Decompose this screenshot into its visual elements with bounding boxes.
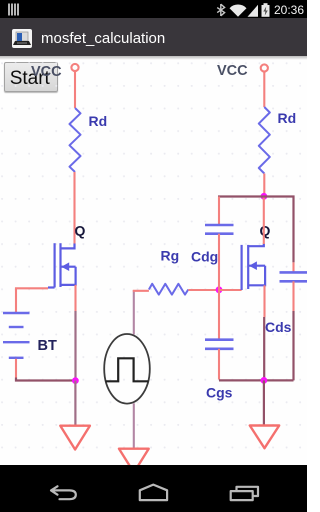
wire battery to bottom rail (left) bbox=[15, 359, 17, 378]
wire gate node to Q gate (right) bbox=[219, 289, 242, 291]
svg-text:VCC: VCC bbox=[31, 64, 62, 80]
wire corner to Rg bbox=[133, 290, 149, 292]
wire Q gate to battery BT bbox=[16, 288, 48, 312]
resistor Rd (right) bbox=[259, 107, 270, 174]
wire gate node to Cgs bbox=[218, 290, 220, 340]
node (drain) bbox=[261, 193, 268, 200]
wire Rg to gate node bbox=[188, 289, 219, 291]
svg-text:VCC: VCC bbox=[217, 63, 248, 79]
svg-text:Rg: Rg bbox=[161, 248, 180, 264]
svg-text:Q: Q bbox=[75, 223, 86, 239]
wire node to ground (left) bbox=[74, 381, 76, 426]
status bar icons bbox=[0, 0, 307, 18]
bottom rail (left) bbox=[16, 378, 75, 381]
wire drain node to Cdg bbox=[218, 197, 264, 226]
node (left source/battery junction) bbox=[72, 377, 79, 384]
pulse source V1 bbox=[104, 334, 150, 404]
transistor Q (right NMOS) bbox=[242, 244, 266, 291]
wire V1 bottom to ground (mid) bbox=[133, 403, 135, 448]
capacitor Cds bbox=[280, 272, 308, 281]
wire Q source down (left) bbox=[74, 285, 76, 381]
action/title bar bbox=[0, 18, 307, 56]
wire Cdg to gate node bbox=[218, 234, 220, 290]
svg-text:Rd: Rd bbox=[89, 113, 108, 129]
wire V1 top to Rg corner bbox=[133, 290, 135, 335]
wire drain node to Q drain (right) bbox=[263, 197, 265, 245]
wire VCC terminal to Rd (left) bbox=[74, 71, 76, 108]
svg-text:Cdg: Cdg bbox=[191, 249, 218, 265]
bottom rail (right) bbox=[219, 379, 294, 381]
wire drain node to Cds bbox=[264, 197, 294, 273]
wire Q source down (right) bbox=[263, 285, 265, 380]
VCC terminal (left) bbox=[71, 64, 78, 71]
wire Cds to bottom rail bbox=[292, 281, 294, 380]
battery BT bbox=[3, 313, 30, 358]
svg-text:Q: Q bbox=[260, 223, 271, 239]
svg-text:Rd: Rd bbox=[278, 110, 297, 126]
capacitor Cdg bbox=[205, 225, 234, 234]
Start button bbox=[4, 62, 58, 92]
resistor Rd (left) bbox=[70, 108, 81, 172]
ground (right) bbox=[250, 426, 279, 449]
svg-text:Cds: Cds bbox=[265, 319, 292, 335]
node (gate) bbox=[216, 286, 223, 293]
svg-text:Cgs: Cgs bbox=[206, 385, 233, 401]
status bar bbox=[0, 0, 307, 18]
navigation bar bbox=[0, 465, 307, 512]
transistor Q (left NMOS) bbox=[48, 243, 76, 287]
ground (mid) bbox=[119, 449, 149, 473]
svg-text:BT: BT bbox=[38, 338, 57, 354]
VCC terminal (right) bbox=[261, 64, 268, 71]
wire Rd to drain node bbox=[263, 174, 265, 197]
resistor Rg bbox=[149, 284, 188, 295]
wire VCC terminal to Rd (right) bbox=[263, 72, 265, 107]
node (right source/ground junction) bbox=[261, 377, 268, 384]
capacitor Cgs bbox=[205, 340, 234, 349]
wire Cgs to bottom rail bbox=[218, 349, 220, 380]
wire Rd to Q drain (left) bbox=[73, 172, 75, 244]
app drawing area bbox=[0, 56, 307, 465]
wire node to ground (right) bbox=[263, 380, 265, 425]
ground (left) bbox=[60, 426, 90, 450]
